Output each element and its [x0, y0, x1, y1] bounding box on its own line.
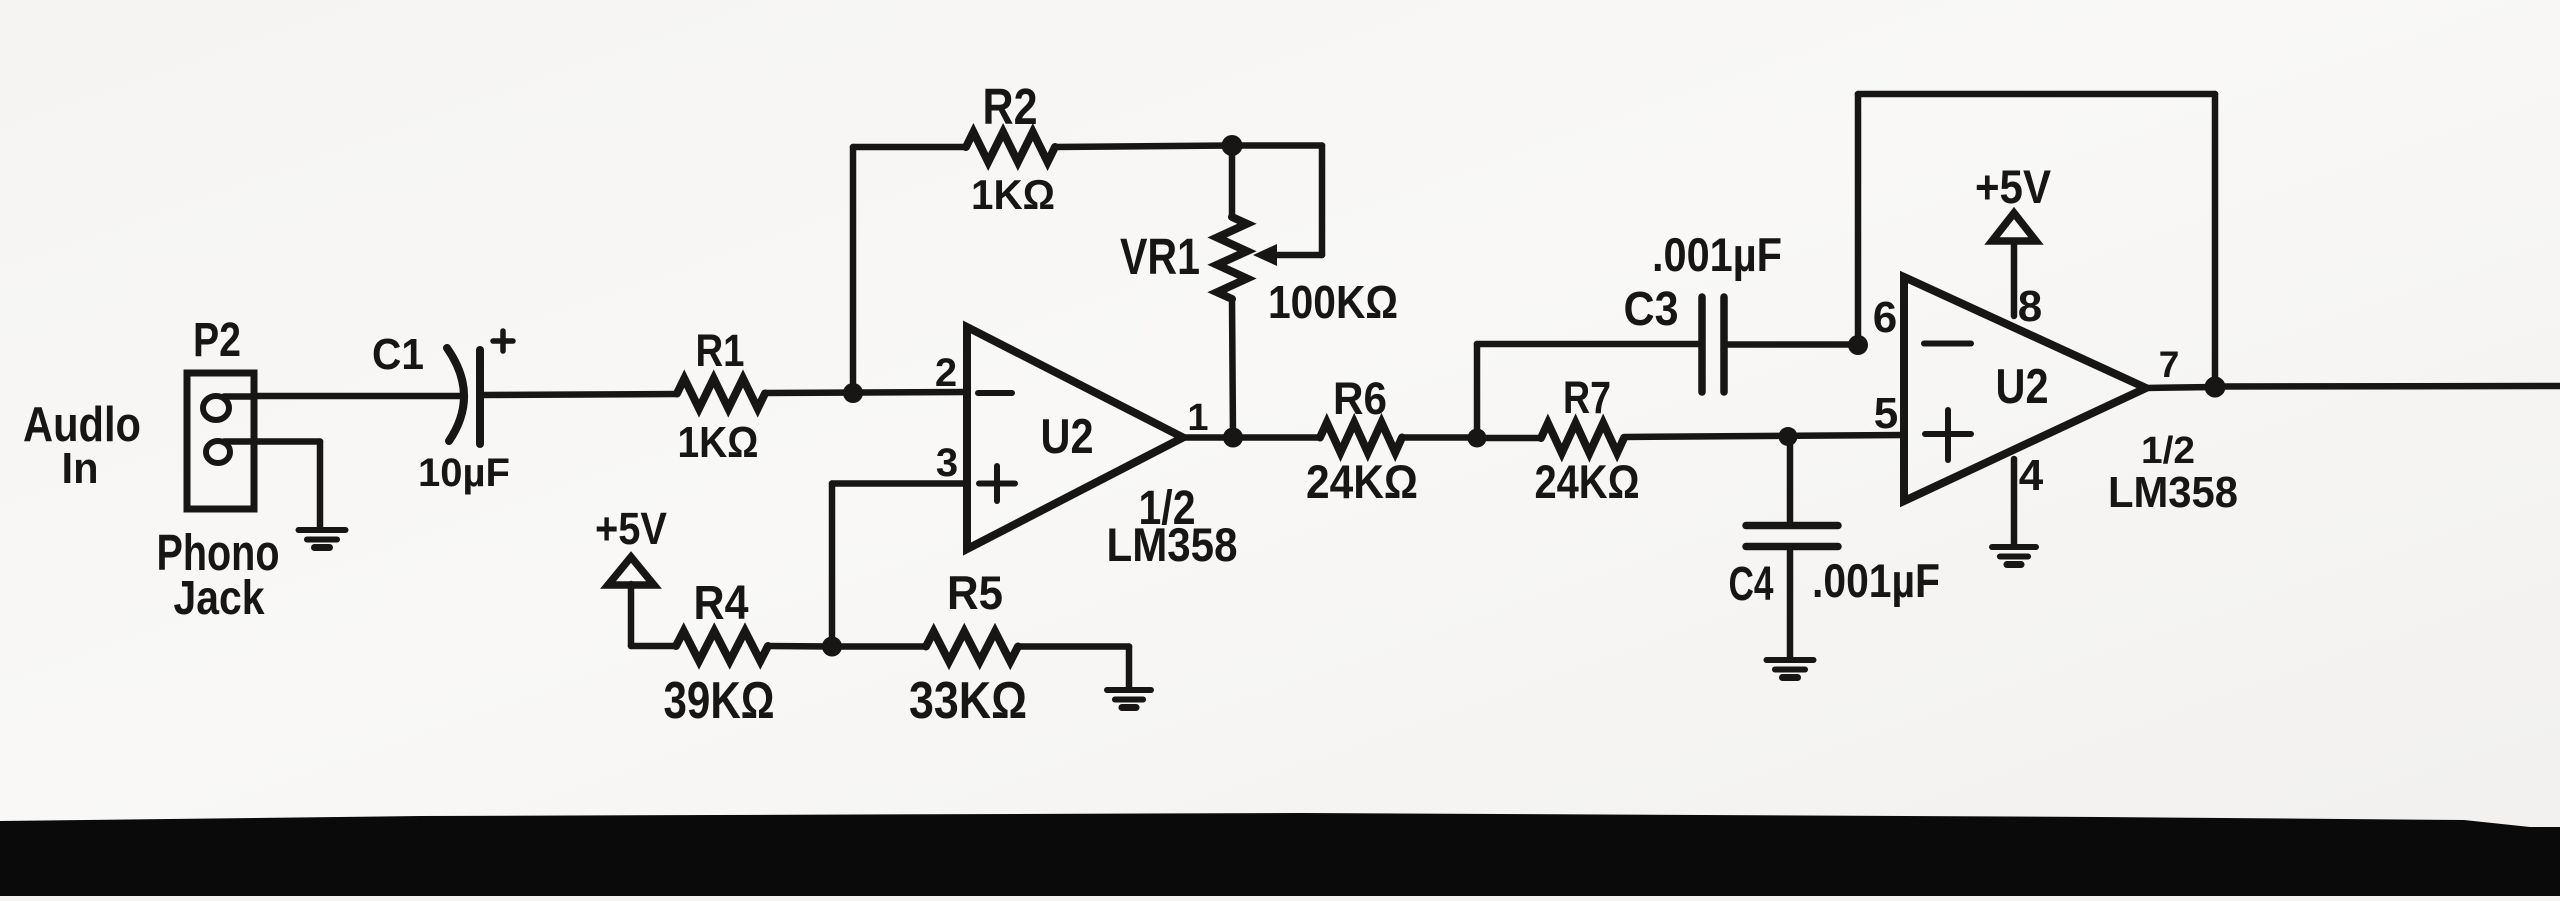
label Audio In: [23, 398, 141, 493]
wire node D to R7: [1477, 435, 1541, 442]
wire R1 to U2A pin 2: [765, 392, 967, 393]
svg-text:.001µF: .001µF: [1812, 554, 1940, 607]
svg-text:R2: R2: [983, 78, 1038, 135]
op-amp U2 (second half): [1904, 277, 2146, 501]
svg-text:R6: R6: [1333, 373, 1387, 424]
wire C1 to R1: [484, 394, 677, 395]
svg-text:U2: U2: [1996, 360, 2049, 414]
wire node C to R5: [832, 643, 926, 650]
resistor R4: [676, 631, 768, 661]
resistor R2: [966, 132, 1055, 162]
svg-text:7: 7: [2159, 344, 2180, 385]
node B junction (R2 / VR1 top): [1222, 135, 1243, 156]
resistor R7: [1541, 423, 1624, 453]
wire U2A output to node D: [1183, 434, 1320, 441]
svg-text:6: 6: [1873, 293, 1897, 342]
svg-text:2: 2: [935, 351, 957, 395]
wire R7 to U2B pin 5: [1624, 435, 1904, 437]
svg-text:24KΩ: 24KΩ: [1306, 455, 1418, 508]
svg-text:LM358: LM358: [2108, 468, 2238, 517]
capacitor C4: [1746, 437, 1838, 658]
+5V supply (U2B pin 8): [1975, 160, 2052, 241]
svg-text:P2: P2: [193, 314, 241, 367]
svg-text:C4: C4: [1729, 558, 1774, 611]
label Phono Jack: [157, 524, 280, 625]
resistor R5: [926, 632, 1018, 662]
wire U2A pin 3: [832, 484, 967, 647]
resistor R1: [677, 379, 765, 409]
svg-text:R5: R5: [947, 566, 1003, 619]
node output1 junction (pin1/VR1): [1223, 428, 1243, 448]
resistor R6: [1320, 423, 1402, 453]
svg-text:LM358: LM358: [1107, 518, 1238, 571]
node A junction (inverting input): [843, 383, 863, 403]
svg-text:1KΩ: 1KΩ: [678, 418, 759, 467]
wire R6 to node D: [1402, 434, 1477, 441]
wire node A up to R2: [850, 147, 857, 393]
connector P2 sleeve contact: [206, 441, 254, 463]
svg-text:+5V: +5V: [1975, 160, 2052, 213]
svg-text:10µF: 10µF: [418, 451, 510, 495]
pin 8 wire: [2011, 242, 2018, 316]
wire C3 to node F: [1727, 341, 1858, 348]
svg-text:100KΩ: 100KΩ: [1268, 276, 1398, 328]
wire R5 to ground: [1018, 647, 1129, 689]
capacitor C3: [1702, 297, 1724, 392]
wire P2 sleeve to ground: [254, 442, 320, 529]
bottom black band: [0, 813, 2560, 896]
wire node D up to C3: [1477, 344, 1699, 438]
wire R2 left lead: [853, 144, 966, 151]
svg-text:R1: R1: [696, 325, 745, 376]
svg-text:1KΩ: 1KΩ: [971, 171, 1055, 218]
node F junction (pin6/C3/feedback): [1848, 335, 1868, 355]
svg-text:5: 5: [1874, 389, 1898, 438]
svg-text:1: 1: [1187, 397, 1208, 439]
wire P2 tip to C1: [254, 393, 459, 400]
node C junction (R4/R5/pin3): [822, 637, 842, 657]
svg-text:33KΩ: 33KΩ: [909, 672, 1027, 730]
svg-text:C3: C3: [1624, 283, 1679, 336]
node E junction (pin5/C4): [1779, 427, 1798, 446]
wire +5V to R4: [631, 643, 676, 650]
svg-text:U2: U2: [1041, 410, 1094, 464]
svg-text:Jack: Jack: [174, 572, 265, 625]
potentiometer VR1: [1217, 146, 1247, 438]
ground (C4): [1767, 660, 1814, 678]
ground (R5): [1107, 690, 1151, 708]
op-amp U2 (first half): [967, 327, 1183, 549]
connector P2 phono jack body: [187, 373, 254, 509]
label 1/2 LM358 (first): [1107, 482, 1238, 571]
svg-text:VR1: VR1: [1120, 228, 1200, 285]
svg-text:R4: R4: [694, 577, 749, 630]
node G junction (output/feedback): [2205, 377, 2226, 398]
svg-text:.001µF: .001µF: [1652, 228, 1782, 281]
svg-text:4: 4: [2019, 451, 2044, 500]
svg-text:3: 3: [936, 441, 958, 485]
ground (U2B pin 4): [1992, 547, 2036, 565]
wire audio out: [2215, 383, 2560, 390]
svg-text:8: 8: [2018, 282, 2042, 331]
svg-text:39KΩ: 39KΩ: [664, 672, 775, 730]
node D junction (R6/R7/C3): [1468, 429, 1487, 448]
wire U2B output: [2146, 387, 2215, 388]
svg-text:+5V: +5V: [595, 503, 667, 554]
connector P2 tip contact: [203, 396, 254, 420]
wire R2 to node B: [1055, 146, 1232, 148]
svg-text:R7: R7: [1563, 372, 1611, 423]
wire node B to VR1 wiper: [1232, 146, 1322, 256]
capacitor C1 (polarized): [447, 331, 513, 444]
potentiometer VR1 wiper arrow: [1253, 244, 1277, 266]
wire feedback (pin7 to pin6): [1858, 94, 2215, 387]
label 1/2 LM358 (second): [2108, 430, 2238, 517]
ground (phono jack): [299, 530, 346, 548]
+5V supply (R4): [595, 503, 667, 646]
pin 4 wire: [2011, 459, 2018, 544]
svg-text:In: In: [62, 444, 99, 493]
svg-text:24KΩ: 24KΩ: [1535, 455, 1640, 508]
svg-text:1/2: 1/2: [2141, 430, 2195, 472]
wire R4 to node C: [768, 643, 832, 650]
svg-text:C1: C1: [372, 330, 424, 379]
